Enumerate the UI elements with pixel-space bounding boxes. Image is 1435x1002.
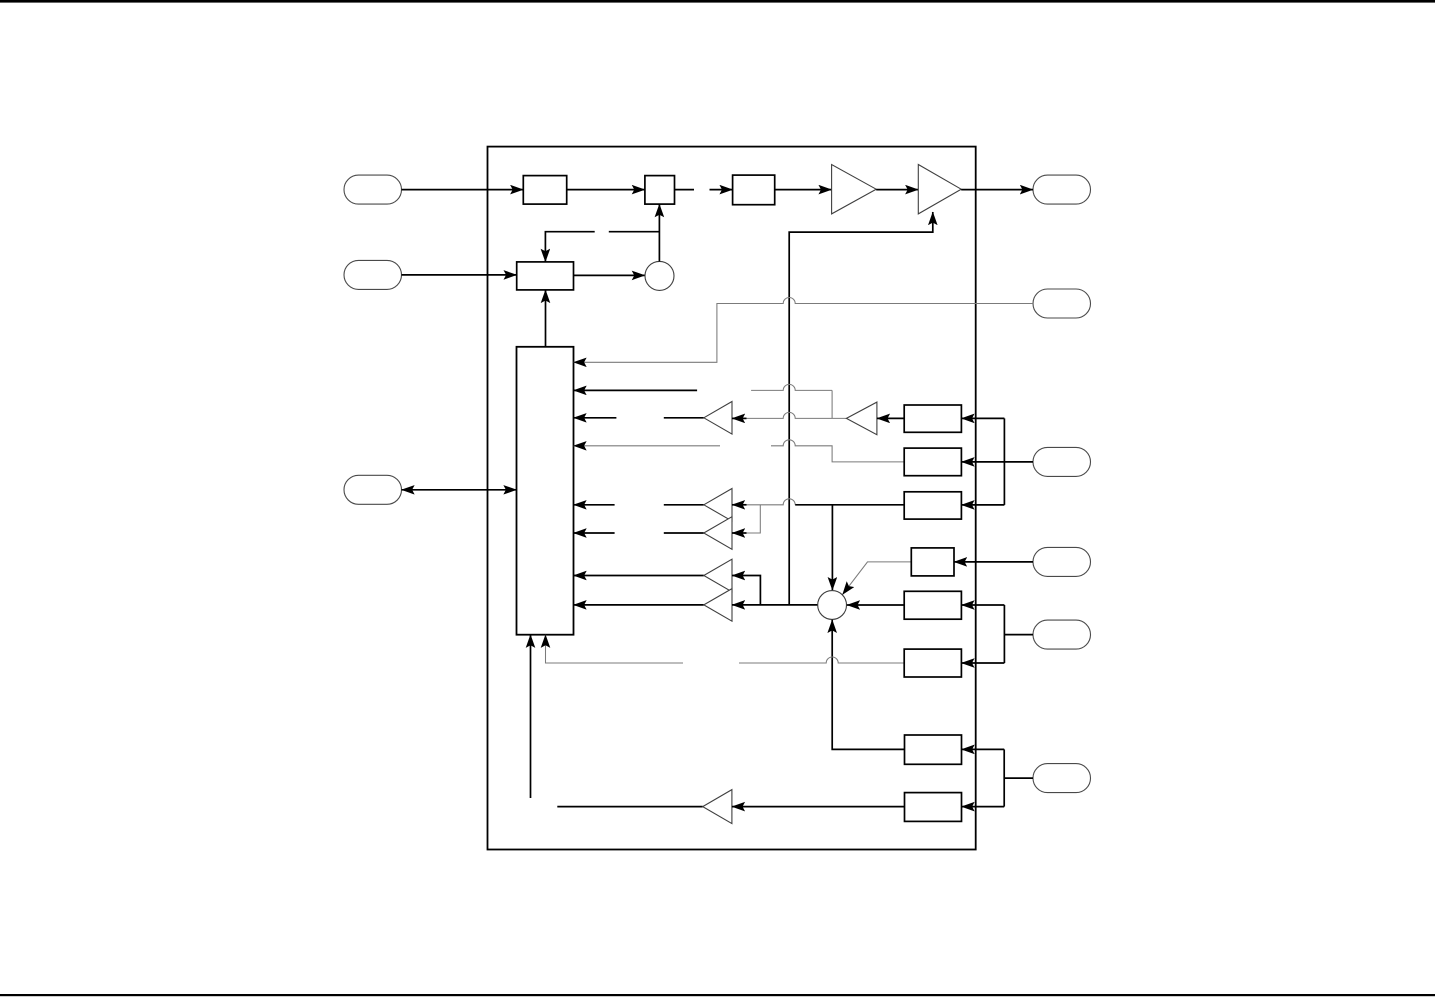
- pin R6 (bottom-right input): [1033, 764, 1091, 793]
- block G (register): [905, 735, 962, 764]
- pin R2 (right input 2): [1033, 289, 1091, 318]
- wire into block B after label gap: [710, 189, 733, 191]
- wire row5 arrow into control: [574, 504, 615, 506]
- wire row5 grey mid segment with hop: [747, 499, 796, 505]
- wire buffer Ta output: [664, 417, 704, 419]
- amp 1 (buffer triangle): [832, 165, 877, 214]
- wire vertical into control bottom 2: [530, 635, 532, 798]
- buffer Tb (left-pointing): [846, 402, 877, 435]
- wire osc tee segment left after label gap: [545, 232, 594, 262]
- block C (reference divider): [517, 262, 574, 290]
- buffer Td (left-pointing): [704, 517, 732, 550]
- wire amp2 to pin R1: [961, 189, 1033, 191]
- wire stub after phase detector: [675, 189, 695, 191]
- pin R5 (right input 5): [1033, 620, 1091, 649]
- wire L1 to block A: [402, 189, 524, 191]
- wire C to node circle: [574, 274, 645, 276]
- wire block H into buffer Tg: [732, 806, 905, 808]
- wire bracket pin R3 to D1 D2 D3: [1003, 418, 1005, 505]
- block F2 (register): [904, 649, 961, 677]
- wire row8 into control: [574, 604, 704, 606]
- wire L2 to block C: [402, 274, 517, 276]
- wire buffer Tg output: [557, 806, 702, 808]
- block D1 (register): [904, 405, 961, 432]
- wire arrow into buffer Td: [732, 532, 747, 534]
- block D2 (register): [904, 448, 961, 476]
- pin R4 (right input 4): [1033, 547, 1091, 576]
- wire modulation feedback up into amp 2: [789, 212, 933, 605]
- wire down into summer top: [831, 505, 833, 590]
- wire grey tap from row5 into Td: [747, 505, 761, 533]
- pin R1 (top-right output): [1033, 175, 1091, 204]
- wire bracket pin R5 to F1 F2: [1004, 634, 1033, 636]
- buffer Tf (left-pointing): [704, 589, 732, 622]
- wire arrow into buffer Tc: [732, 504, 747, 506]
- page bottom rule: [0, 994, 1435, 996]
- wire row4 grey left segment arrow: [574, 445, 721, 447]
- pin L1 (top-left input): [344, 175, 402, 204]
- block A (prescaler): [523, 176, 566, 205]
- wire D1 into buffer Tb: [877, 417, 904, 419]
- wire buffer Tc output: [664, 504, 704, 506]
- wire row5 black right to block D3: [795, 504, 904, 506]
- wire row3 arrow into control: [574, 417, 617, 419]
- chip boundary: [488, 147, 976, 850]
- wire L3 bidirectional to control block: [402, 489, 517, 491]
- wire A to phase detector: [567, 189, 645, 191]
- buffer Ta (left-pointing): [704, 402, 732, 435]
- wire osc up into phase detector: [658, 204, 660, 261]
- wire pin R4 into block E: [954, 561, 1033, 563]
- buffer Tc (left-pointing): [704, 489, 732, 522]
- wire osc tee segment right: [609, 231, 660, 233]
- wire amp1 to amp 2: [876, 189, 918, 191]
- amp 2 (output amplifier): [918, 165, 961, 214]
- block D3 (register): [904, 492, 961, 519]
- block F1 (register): [904, 591, 961, 619]
- wire summer output into buffer Tf: [732, 604, 818, 606]
- wire block E diagonal into summer: [843, 562, 912, 595]
- wire B to amp 1: [775, 189, 832, 191]
- block H (register): [905, 793, 962, 822]
- wire row6 arrow into control: [574, 532, 615, 534]
- wire arrow into buffer Ta: [732, 417, 747, 419]
- wire block G into summer bottom: [832, 620, 904, 750]
- wire from row8 up into buffer Te: [732, 576, 760, 605]
- node circle (crystal osc): [645, 261, 674, 290]
- wire block C down to control block: [545, 290, 547, 347]
- wire grey from Tb apex with hop: [747, 412, 847, 418]
- wire pin R2 grey route with hop into control row1: [574, 298, 1034, 363]
- wire block F1 into summer right: [847, 604, 904, 606]
- wire row7 into control: [574, 575, 704, 577]
- pin L3 (bidirectional data): [344, 475, 402, 504]
- page top rule: [0, 0, 1435, 3]
- block U1 phase detector (square): [645, 176, 675, 205]
- buffer Te (left-pointing): [704, 559, 732, 592]
- block E (small register): [911, 548, 954, 576]
- wire row2 black segment with arrow: [574, 389, 698, 391]
- wire grey into control bottom: [546, 635, 684, 663]
- wire row2 grey segment with hop: [751, 384, 832, 418]
- pin R3 (right input 3): [1033, 447, 1091, 476]
- block B (loop filter): [733, 175, 775, 205]
- wire grey from F2 with hop: [739, 657, 904, 663]
- wire buffer Td output: [664, 532, 704, 534]
- buffer Tg (left-pointing): [703, 790, 732, 824]
- block U2 control logic (tall): [517, 347, 574, 635]
- wire row4 grey route to block D2: [771, 440, 904, 462]
- wire bracket pin R6 to G H: [1004, 777, 1033, 779]
- summing node circle: [818, 591, 847, 620]
- pin L2 (mid-left input): [344, 260, 402, 289]
